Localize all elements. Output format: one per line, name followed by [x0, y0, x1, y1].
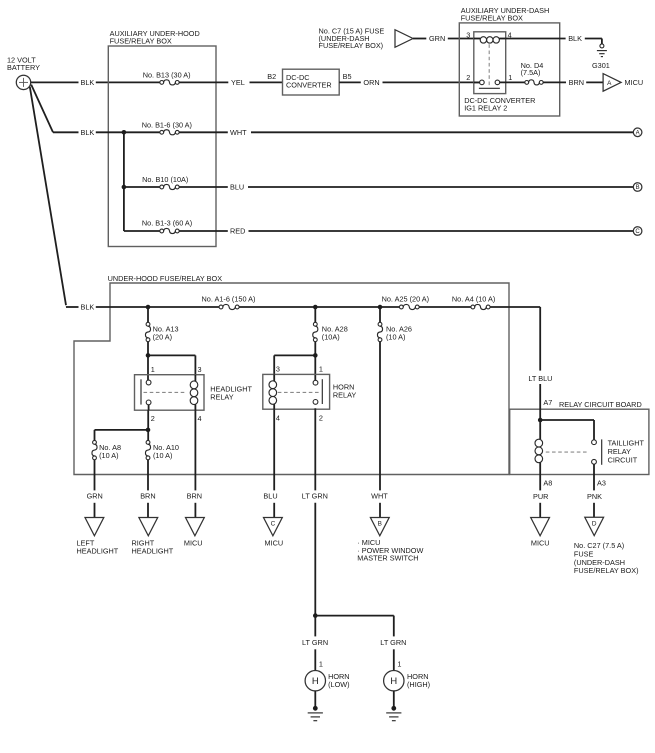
wire horn high to ground	[393, 691, 395, 707]
contact taillight relay bottom	[592, 459, 597, 464]
aux under-dash fuse/relay box	[459, 6, 559, 116]
svg-text:BLK: BLK	[81, 303, 95, 312]
svg-text:RELAY: RELAY	[333, 391, 357, 400]
wire LT BLU to relay circuit board pin A7	[528, 374, 552, 420]
svg-text:WHT: WHT	[371, 492, 388, 501]
connector triangle PUR MICU	[531, 518, 550, 548]
node junction bus row3	[122, 185, 127, 190]
node junction horn relay feed	[313, 353, 318, 358]
svg-text:BLU: BLU	[230, 183, 244, 192]
svg-text:CONVERTER: CONVERTER	[286, 81, 332, 90]
svg-text:GRN: GRN	[429, 34, 445, 43]
connector circle C	[633, 227, 642, 236]
contact bar IG1 relay	[479, 87, 500, 89]
svg-text:1: 1	[508, 73, 512, 82]
wire taillight switch down to A3	[593, 464, 595, 474]
svg-text:MICU: MICU	[531, 539, 550, 548]
node junction taillight relay feed	[538, 418, 543, 423]
fuse No. B1-6 (30 A)	[142, 121, 192, 135]
wire ORN DC-DC to IG1 relay pin 2	[339, 78, 479, 87]
fuse No. A10 (10 A)	[145, 440, 179, 459]
svg-text:IG1 RELAY 2: IG1 RELAY 2	[464, 104, 507, 113]
svg-text:WHT: WHT	[230, 128, 247, 137]
wire pin3 inside relay	[474, 38, 481, 40]
wire taillight relay switch feed	[540, 420, 594, 440]
connector triangle from fuse C7	[395, 30, 413, 48]
wire pin4 to BLK ground G301	[499, 34, 602, 44]
wire BRN to right headlight	[140, 460, 155, 518]
svg-text:H: H	[390, 675, 397, 686]
svg-text:HEADLIGHT: HEADLIGHT	[132, 547, 174, 556]
contact horn relay pin1	[313, 380, 318, 385]
svg-text:PNK: PNK	[587, 492, 602, 501]
contact taillight relay top	[592, 440, 597, 445]
battery 12 VOLT BATTERY (B+)	[7, 56, 40, 90]
connector triangle D to fuse C27	[574, 517, 639, 575]
fuse No. A4 (10 A)	[452, 294, 495, 309]
node junction horn feed split	[313, 613, 318, 618]
relay K1 HEADLIGHT RELAY	[135, 375, 253, 411]
wire GRN to left headlight	[87, 460, 103, 518]
svg-text:BLU: BLU	[263, 492, 277, 501]
svg-text:1: 1	[151, 365, 155, 374]
horn HIGH	[384, 671, 431, 691]
svg-text:MICU: MICU	[625, 78, 644, 87]
svg-text:UNDER-HOOD FUSE/RELAY BOX: UNDER-HOOD FUSE/RELAY BOX	[108, 274, 223, 283]
fuse No. B10 (10 A)	[124, 175, 188, 189]
dashed link headlight relay	[144, 391, 187, 393]
svg-text:HEADLIGHT: HEADLIGHT	[77, 547, 119, 556]
relay U1 DC-DC CONVERTER IG1 RELAY 2	[464, 32, 535, 113]
wire split to horn high	[315, 616, 394, 637]
under-hood fuse/relay box	[74, 274, 509, 475]
svg-text:C: C	[271, 521, 276, 528]
fuse No. A13 (20 A)	[145, 307, 178, 342]
coil horn relay	[269, 374, 277, 409]
bus wire A1-6 to A25	[239, 306, 399, 308]
svg-text:2: 2	[151, 414, 155, 423]
RELAY CIRCUIT BOARD box	[510, 400, 649, 474]
svg-text:FUSE/RELAY BOX): FUSE/RELAY BOX)	[319, 41, 384, 50]
svg-text:RED: RED	[230, 227, 245, 236]
fuse No. B1-3 (60 A)	[124, 219, 192, 234]
svg-text:(LOW): (LOW)	[328, 680, 349, 689]
svg-text:BRN: BRN	[140, 492, 155, 501]
svg-text:MICU: MICU	[184, 539, 203, 548]
wire LT GRN to horn high	[380, 638, 406, 671]
svg-text:B: B	[378, 521, 382, 528]
svg-text:PUR: PUR	[533, 492, 548, 501]
contact bar horn relay	[321, 379, 323, 404]
svg-text:BATTERY: BATTERY	[7, 63, 40, 72]
fuse No. C7 (15 A) label	[319, 26, 385, 50]
svg-text:1: 1	[319, 365, 323, 374]
connector triangle LEFT HEADLIGHT	[77, 518, 119, 556]
svg-text:RELAY: RELAY	[210, 392, 234, 401]
svg-text:(10 A): (10 A)	[386, 332, 405, 341]
ground horn low	[308, 706, 323, 721]
svg-text:(10 A): (10 A)	[99, 451, 118, 460]
svg-text:A: A	[636, 130, 640, 136]
wire BLU horn relay pin4 to MICU	[263, 409, 277, 517]
wire headlight relay pin2 down	[95, 405, 149, 441]
node junction fuse A28	[313, 305, 318, 310]
svg-text:MASTER SWITCH: MASTER SWITCH	[357, 554, 418, 563]
wire LT GRN to horn low	[302, 616, 328, 671]
svg-text:(20 A): (20 A)	[153, 332, 172, 341]
dashed link taillight relay	[546, 451, 589, 453]
wire GRN C7 to IG1 relay pin 3	[413, 34, 474, 43]
svg-text:B: B	[636, 185, 640, 191]
contact bar headlight relay	[140, 379, 142, 404]
wire horn low to ground	[314, 691, 316, 707]
wire A28 to horn relay pins	[274, 342, 315, 381]
connector triangle A to MICU	[603, 74, 643, 92]
wire PUR to MICU	[533, 475, 548, 518]
svg-text:BRN: BRN	[569, 78, 584, 87]
svg-text:3: 3	[198, 365, 202, 374]
svg-text:LT GRN: LT GRN	[380, 638, 406, 647]
wire A13 to headlight relay pins	[148, 342, 195, 380]
wire battery to under-hood box BLK bus	[30, 87, 219, 312]
fuse No. D4 (7.5A)	[500, 61, 544, 85]
bus wire A25 to A4	[419, 306, 471, 308]
node junction bus row2	[122, 130, 127, 135]
svg-text:BLK: BLK	[568, 34, 582, 43]
svg-text:D: D	[592, 521, 597, 528]
svg-text:No. B13 (30 A): No. B13 (30 A)	[143, 71, 191, 80]
dashed link IG1 relay	[488, 44, 490, 85]
wire BRN D4 to MICU	[543, 78, 603, 87]
wire battery to aux box row1 BLK	[31, 78, 160, 87]
svg-text:1: 1	[397, 660, 401, 669]
wire A4 to LT BLU drop	[490, 307, 540, 371]
svg-text:No. A25 (20 A): No. A25 (20 A)	[382, 294, 429, 303]
svg-text:FUSE/RELAY BOX: FUSE/RELAY BOX	[461, 14, 523, 23]
bus wire aux box vertical	[123, 132, 125, 231]
contact horn relay pin2	[313, 400, 318, 405]
fuse No. A26 (10 A)	[377, 307, 412, 342]
svg-text:FUSE/RELAY BOX): FUSE/RELAY BOX)	[574, 566, 639, 575]
wire WHT A26 to power window master switch	[371, 342, 388, 518]
contact headlight relay pin1	[146, 380, 151, 385]
svg-text:3: 3	[276, 365, 280, 374]
svg-text:A8: A8	[543, 479, 552, 488]
svg-text:C: C	[635, 229, 640, 235]
connector triangle RIGHT HEADLIGHT	[132, 518, 174, 556]
svg-text:B2: B2	[267, 72, 276, 81]
connector circle B	[633, 183, 642, 192]
svg-text:CIRCUIT: CIRCUIT	[608, 456, 638, 465]
svg-text:4: 4	[198, 414, 202, 423]
wire BRN pin4 to MICU	[187, 410, 202, 517]
fuse No. B13 (30 A)	[143, 71, 191, 85]
contact headlight relay pin2	[146, 400, 151, 405]
DC-DC CONVERTER box	[283, 69, 340, 95]
svg-text:No. B1-3 (60 A): No. B1-3 (60 A)	[142, 219, 192, 228]
fuse No. A28 (10 A)	[313, 307, 348, 342]
node junction fuse A26	[378, 305, 383, 310]
connector triangle B to MICU / power window master switch	[357, 518, 423, 563]
aux under-hood fuse/relay box	[108, 29, 216, 247]
connector triangle MICU brn	[184, 518, 204, 548]
node junction headlight relay feed	[146, 353, 151, 358]
svg-text:No. B1-6 (30 A): No. B1-6 (30 A)	[142, 121, 192, 130]
wire WHT to connector A	[179, 128, 633, 137]
svg-text:2: 2	[319, 414, 323, 423]
svg-text:BLK: BLK	[81, 128, 95, 137]
dashed link horn relay	[278, 391, 320, 393]
svg-text:YEL: YEL	[231, 78, 245, 87]
ground horn high	[386, 706, 401, 721]
svg-text:A7: A7	[543, 398, 552, 407]
contact IG1 relay pin2	[480, 80, 485, 85]
fuse No. A25 (20 A)	[382, 294, 429, 309]
contact IG1 relay pin1	[495, 80, 500, 85]
svg-text:1: 1	[319, 660, 323, 669]
connector circle A	[633, 128, 642, 137]
connector triangle C to MICU	[264, 518, 284, 548]
wire B13 to YEL label	[179, 78, 282, 87]
fuse No. A1-6 (150 A)	[202, 295, 256, 310]
svg-text:H: H	[312, 675, 319, 686]
svg-text:3: 3	[466, 31, 470, 40]
svg-text:A3: A3	[597, 479, 606, 488]
svg-text:MICU: MICU	[265, 539, 284, 548]
svg-text:RELAY CIRCUIT BOARD: RELAY CIRCUIT BOARD	[559, 400, 642, 409]
node junction pin2 fuse branch	[146, 428, 151, 433]
svg-text:2: 2	[466, 73, 470, 82]
coil headlight relay	[190, 375, 198, 411]
contact bar taillight relay	[601, 439, 603, 464]
node junction fuse A13	[146, 305, 151, 310]
label TAILLIGHT RELAY CIRCUIT	[608, 439, 645, 465]
relay K2 HORN RELAY	[263, 374, 357, 409]
svg-text:(7.5A): (7.5A)	[521, 68, 541, 77]
svg-text:ORN: ORN	[363, 78, 379, 87]
svg-text:BLK: BLK	[81, 78, 95, 87]
svg-text:BRN: BRN	[187, 492, 202, 501]
svg-text:No. B10 (10A): No. B10 (10A)	[142, 175, 188, 184]
wire pin2 inside relay	[474, 81, 480, 83]
svg-text:B5: B5	[343, 72, 352, 81]
svg-text:(HIGH): (HIGH)	[407, 680, 430, 689]
wire RED to connector C	[179, 227, 633, 236]
wire LT GRN horn relay pin2 down	[302, 408, 328, 615]
svg-text:LT GRN: LT GRN	[302, 492, 328, 501]
svg-text:No. A1-6 (150 A): No. A1-6 (150 A)	[202, 295, 256, 304]
svg-text:(10 A): (10 A)	[153, 451, 172, 460]
horn LOW	[305, 671, 350, 691]
svg-text:G301: G301	[592, 61, 610, 70]
svg-text:4: 4	[276, 414, 280, 423]
svg-text:LT GRN: LT GRN	[302, 638, 328, 647]
svg-text:FUSE/RELAY BOX: FUSE/RELAY BOX	[110, 36, 172, 45]
svg-text:LT BLU: LT BLU	[528, 374, 552, 383]
wire BLU to connector B	[179, 183, 633, 192]
svg-text:No. A4 (10 A): No. A4 (10 A)	[452, 294, 495, 303]
fuse No. A8 (10 A)	[92, 440, 121, 459]
svg-text:A: A	[607, 80, 612, 87]
svg-text:(10A): (10A)	[322, 332, 340, 341]
coil IG1 relay	[480, 37, 499, 43]
wire PNK to fuse C27	[587, 475, 602, 518]
ground G301	[592, 44, 610, 70]
coil taillight relay	[535, 420, 543, 475]
svg-text:GRN: GRN	[87, 492, 103, 501]
wire battery to row2 BLK	[31, 85, 160, 137]
